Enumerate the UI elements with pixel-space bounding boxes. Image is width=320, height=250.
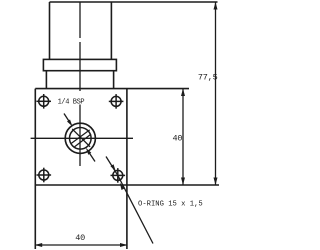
- port hatch slash line 1: [71, 130, 89, 144]
- O-ring leader line with arrow: [118, 175, 153, 243]
- dimension line 40 (body height): [181, 89, 185, 186]
- screw hole top-left: [36, 94, 51, 109]
- port outer circle: [65, 123, 95, 153]
- valve body bottom edge with extension right to dimensions: [35, 184, 219, 186]
- valve body left edge with extension down to width dimension: [34, 89, 36, 249]
- port hatch backslash line: [72, 129, 90, 147]
- neck right edge: [113, 71, 115, 89]
- valve body right edge with extension down to width dimension: [126, 89, 128, 249]
- svg-text:O-RING 15 x 1,5: O-RING 15 x 1,5: [138, 200, 203, 208]
- port inner circle: [70, 128, 92, 150]
- screw hole bottom-left: [37, 168, 52, 183]
- section arrow lower-right of port: [86, 148, 95, 162]
- dimension line 40 (body width): [35, 243, 128, 247]
- screw hole bottom-right (O-ring port): [111, 168, 126, 183]
- svg-text:1/4 BSP: 1/4 BSP: [58, 99, 85, 107]
- port hatch slash line 2: [75, 134, 91, 147]
- neck left edge: [45, 71, 47, 89]
- svg-text:77,5: 77,5: [198, 72, 218, 82]
- solenoid cap: [50, 2, 112, 59]
- svg-text:40: 40: [172, 133, 182, 143]
- flange: [43, 59, 116, 70]
- horizontal centerline of port: [31, 137, 133, 139]
- dimension line 77,5: [214, 2, 218, 185]
- vertical centerline: [79, 2, 81, 166]
- screw hole top-right: [109, 94, 124, 109]
- svg-text:40: 40: [75, 233, 85, 243]
- cap top edge with extension line to 77,5 dimension: [50, 1, 218, 3]
- valve body top edge with extension to 40 dimension: [35, 88, 189, 90]
- section arrow upper-left of port: [64, 114, 73, 127]
- section arrow upper-left of O-ring port: [106, 157, 118, 176]
